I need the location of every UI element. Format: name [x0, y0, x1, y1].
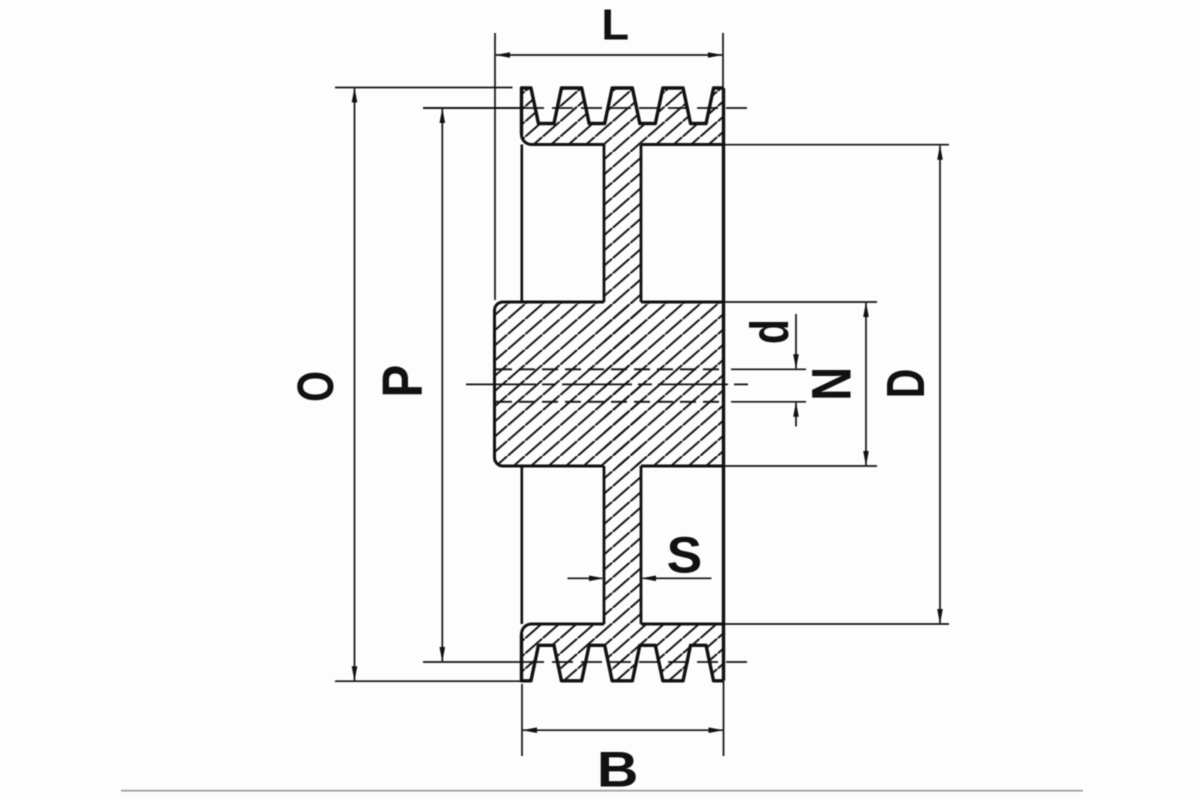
bore hidden line upper [496, 368, 724, 370]
dimension D line [939, 146, 941, 623]
dimension P arrow top [440, 108, 446, 123]
dimension L extension line left [494, 33, 496, 300]
hub hatched fill [495, 302, 725, 466]
web left edge lower [603, 466, 606, 624]
dimension d arrow upper (points down) [793, 354, 799, 369]
rim bottom band inner edge left of web with fillet [522, 624, 605, 634]
bottom page rule [121, 790, 1083, 792]
dimension B extension left [521, 684, 523, 756]
dimension D extension top [725, 144, 950, 146]
dimension D arrow top [937, 145, 943, 160]
dimension d extension lower [731, 401, 806, 403]
dimension O extension bottom [335, 680, 521, 682]
dimension B arrow right [709, 727, 724, 733]
dimension P arrow bottom [440, 647, 446, 662]
pitch line bottom dashed [523, 661, 754, 663]
svg-text:B: B [597, 742, 639, 798]
svg-text:L: L [601, 1, 629, 49]
pitch line top solid extension [423, 107, 523, 109]
dimension O arrow bottom [352, 666, 358, 681]
svg-text:d: d [741, 319, 800, 344]
rim inner silhouette upper left [520, 145, 523, 303]
rim top band hatched fill with V-grooves [522, 88, 724, 145]
dimension S arrow right (points left at web) [641, 576, 656, 582]
dimension d extension upper [731, 368, 806, 370]
rim bottom band inner edge right of web [641, 623, 724, 626]
dimension d arrow lower (points up) [793, 402, 799, 417]
pulley right edge [722, 88, 725, 681]
dimension O line [354, 89, 356, 681]
web left edge upper [603, 145, 606, 303]
dimension S right line [643, 577, 711, 579]
dimension L line [496, 54, 722, 56]
dimension S arrow left (points right at web) [589, 576, 604, 582]
dimension O arrow top [352, 88, 358, 103]
dimension O extension top [335, 87, 513, 89]
rim bottom band hatched fill with V-grooves [522, 624, 724, 681]
svg-text:N: N [800, 367, 863, 401]
dimension P extension top [423, 107, 520, 109]
dimension N line [865, 303, 867, 465]
rim top band inner edge right of web [641, 143, 724, 146]
hub outline left part with fillets [495, 302, 605, 466]
dimension d lower line [795, 403, 797, 427]
rim top band inner edge left of web with fillet [522, 135, 605, 145]
dimension S left line [568, 577, 603, 579]
dimension N arrow top [863, 302, 869, 317]
svg-text:P: P [371, 365, 434, 398]
web right edge upper [640, 145, 643, 303]
hub bottom edge right of web [641, 465, 724, 468]
dimension N extension bottom [725, 465, 877, 467]
rim bottom band teeth outline [522, 634, 724, 681]
svg-text:S: S [667, 528, 703, 584]
bore hidden line lower [496, 401, 724, 403]
web right edge lower [640, 466, 643, 624]
dimension D arrow bottom [937, 609, 943, 624]
dimension L arrow left [495, 52, 510, 58]
rim top band teeth outline [522, 88, 724, 135]
dimension N extension top [725, 301, 877, 303]
dimension N arrow bottom [863, 451, 869, 466]
rim inner silhouette lower left [520, 466, 523, 624]
dimension d upper line [795, 314, 797, 368]
hub top edge right of web [641, 301, 724, 304]
dimension B extension right [723, 681, 725, 756]
dimension D extension bottom [725, 623, 950, 625]
dimension P line [441, 109, 443, 661]
dimension B arrow left [522, 727, 537, 733]
centerline (dash-dot) [466, 383, 754, 385]
dimension L arrow right [708, 52, 723, 58]
dimension B line [523, 729, 723, 731]
svg-text:D: D [877, 369, 937, 399]
web hatched fill [604, 145, 641, 625]
pitch line top dashed [523, 107, 754, 109]
dimension L extension line right [722, 33, 724, 88]
svg-text:O: O [288, 371, 345, 402]
pitch line bottom solid extension [423, 661, 523, 663]
